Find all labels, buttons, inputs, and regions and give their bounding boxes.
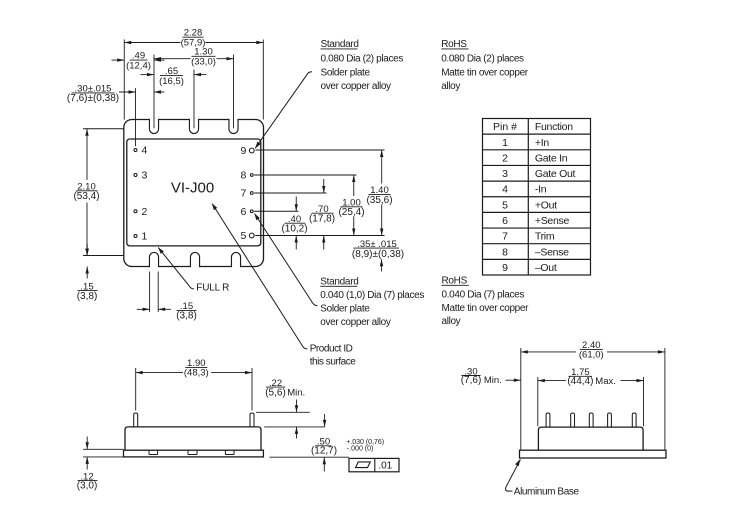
svg-text:+Out: +Out	[535, 199, 557, 211]
svg-text:7: 7	[240, 188, 246, 200]
svg-text:(53,4): (53,4)	[73, 191, 99, 202]
svg-text:(3,8): (3,8)	[77, 291, 98, 302]
svg-text:(61,0): (61,0)	[579, 350, 604, 361]
mounting slot bottom-middle	[191, 265, 199, 267]
leader aluminum base	[506, 460, 521, 492]
extension line base left	[520, 348, 522, 450]
leader pin 9 row	[256, 149, 385, 151]
top view module body	[127, 139, 261, 246]
side view body	[125, 427, 261, 450]
pin 1	[134, 235, 137, 238]
leader to pin 6 (standard plating note)	[255, 214, 318, 306]
extension line base right	[664, 348, 666, 450]
dimension 2.40 (61,0) base width	[521, 351, 576, 353]
pin 8	[250, 174, 253, 177]
end view body	[538, 427, 643, 450]
pin 3	[134, 174, 137, 177]
svg-text:(25,4): (25,4)	[338, 207, 364, 218]
svg-text:(5,6): (5,6)	[265, 388, 286, 399]
end view pin 3	[589, 413, 593, 427]
svg-text:+Sense: +Sense	[535, 215, 570, 227]
extension line flange top-left tangent	[83, 128, 124, 130]
top view flange outline	[124, 120, 264, 267]
dimension .30±.015 (7,6)±(0,38) pin offset	[119, 91, 136, 93]
svg-text:8: 8	[502, 246, 508, 258]
extension line right pin center	[251, 368, 253, 411]
svg-text:-In: -In	[535, 184, 547, 196]
svg-text:(35,6): (35,6)	[366, 195, 392, 206]
end view pin 5	[632, 413, 636, 427]
svg-text:Matte tin over copper: Matte tin over copper	[441, 67, 529, 78]
extension line flange bottom-left tangent	[83, 255, 123, 257]
svg-text:0.080 Dia (2) places: 0.080 Dia (2) places	[321, 54, 404, 65]
svg-text:Matte tin over copper: Matte tin over copper	[442, 303, 530, 314]
extension line base bottom right	[270, 456, 350, 458]
svg-text:(7,6): (7,6)	[461, 375, 482, 386]
pin 6	[250, 210, 253, 213]
svg-text:(12,4): (12,4)	[126, 60, 151, 71]
svg-text:0.040 Dia (7) places: 0.040 Dia (7) places	[442, 289, 525, 300]
dimension 2.28 (57,9) overall width	[124, 42, 180, 44]
mounting slot top-right	[229, 118, 237, 120]
svg-text:3: 3	[502, 168, 508, 180]
svg-text:9: 9	[240, 145, 246, 157]
dimension .15 (3,8) slot width	[137, 308, 150, 310]
dimension .40 (10,2) pin6 to pin5	[295, 197, 297, 212]
svg-text:5: 5	[502, 199, 508, 211]
pin 7	[250, 192, 253, 195]
extension line body left	[537, 377, 539, 426]
extension line base top left	[83, 448, 123, 450]
svg-text:-.000 (0): -.000 (0)	[347, 445, 373, 452]
leader pin 8 row	[254, 174, 356, 176]
svg-text:4: 4	[142, 145, 148, 157]
svg-text:6: 6	[502, 215, 508, 227]
svg-text:(3,8): (3,8)	[176, 311, 197, 322]
side view right pin	[250, 413, 254, 427]
svg-text:1: 1	[502, 137, 508, 149]
svg-text:Function: Function	[535, 121, 573, 133]
leader pin 7 row	[254, 192, 326, 194]
svg-text:4: 4	[502, 184, 508, 196]
extension line slot slit left	[149, 272, 151, 313]
extension line base bottom left	[83, 456, 123, 458]
dimension .70 (17,8) pin7 to pin5	[323, 179, 325, 193]
dimension .49 (12,4) edge to slot1	[112, 59, 125, 61]
extension line slot slit right	[157, 272, 159, 313]
svg-text:3: 3	[142, 170, 148, 182]
dimension 1.75 (44,4) max body width	[538, 380, 566, 382]
leader product id	[212, 204, 307, 349]
end view aluminum base plate	[520, 450, 667, 458]
dimension .15 (3,8) corner height	[86, 244, 88, 256]
leader to pin 9 (standard plating note)	[255, 72, 312, 148]
extension line package right edge	[262, 40, 264, 120]
svg-text:–Out: –Out	[535, 262, 557, 274]
svg-text:Pin #: Pin #	[493, 121, 517, 133]
base slot tab left	[148, 450, 150, 454]
dimension 1.00 (25,4) pin8 to pin5	[353, 175, 355, 196]
svg-text:(12,7): (12,7)	[311, 445, 337, 456]
svg-text:Gate Out: Gate Out	[535, 168, 576, 180]
dimension .65 (16,5) slot1 to slot2	[141, 74, 155, 76]
svg-text:5: 5	[240, 230, 246, 242]
pin 9	[249, 148, 254, 153]
svg-text:.01: .01	[378, 460, 392, 471]
mounting slot bottom-right	[232, 265, 240, 267]
svg-text:7: 7	[502, 231, 508, 243]
svg-text:2: 2	[502, 152, 508, 164]
mounting slot top-middle	[190, 118, 198, 120]
side view base plate	[124, 450, 264, 457]
svg-text:(7,6)±(0,38): (7,6)±(0,38)	[67, 93, 119, 104]
dimension .12 (3,0) base thickness	[86, 437, 88, 450]
end view pin 2	[571, 413, 575, 427]
svg-text:(44,4): (44,4)	[567, 376, 593, 387]
extension line slot2 center	[193, 70, 195, 129]
svg-text:1: 1	[142, 231, 148, 243]
svg-text:over copper alloy: over copper alloy	[321, 81, 392, 92]
svg-text:Solder plate: Solder plate	[321, 67, 371, 78]
extension line body right	[643, 377, 645, 426]
svg-text:alloy: alloy	[441, 81, 460, 92]
svg-text:over copper alloy: over copper alloy	[320, 317, 391, 328]
extension line slot3 center	[233, 55, 235, 129]
svg-text:Max.: Max.	[595, 376, 616, 387]
end view pin 4	[608, 413, 612, 427]
svg-text:FULL R: FULL R	[196, 282, 229, 293]
dimension 1.40 (35,6) pin9 to pin5	[381, 150, 383, 184]
end view pin 1	[546, 413, 550, 427]
base slot tab middle	[187, 450, 189, 454]
svg-text:2: 2	[142, 206, 148, 218]
dimension 1.90 (48,3) pin span	[136, 372, 183, 374]
svg-text:–Sense: –Sense	[535, 246, 569, 258]
pin 2	[134, 210, 137, 213]
extension line pin column left	[135, 88, 137, 146]
dimension 2.10 (53,4) overall height	[86, 129, 88, 180]
svg-text:Product ID: Product ID	[310, 344, 353, 355]
extension line left pin center	[135, 368, 137, 411]
pin 5	[249, 233, 254, 238]
svg-text:this surface: this surface	[310, 357, 357, 368]
base slot tab right	[224, 450, 226, 454]
mounting slot bottom-left	[150, 265, 158, 267]
svg-text:(48,3): (48,3)	[184, 368, 209, 379]
dimension 1.30 (33,0) slot span	[154, 58, 191, 60]
svg-text:VI-J00: VI-J00	[171, 179, 214, 196]
svg-text:(17,8): (17,8)	[309, 214, 335, 225]
mounting slot top-left	[150, 118, 158, 120]
svg-text:6: 6	[240, 206, 246, 218]
svg-text:8: 8	[240, 170, 246, 182]
svg-text:+In: +In	[535, 137, 549, 149]
svg-text:Trim: Trim	[535, 231, 555, 243]
pin 4	[134, 149, 137, 152]
svg-text:(33,0): (33,0)	[191, 57, 216, 68]
svg-text:0.080 Dia (2) places: 0.080 Dia (2) places	[441, 54, 524, 65]
svg-text:Aluminum Base: Aluminum Base	[514, 486, 580, 497]
pin function table grid	[483, 119, 591, 276]
extension line package left edge	[123, 40, 125, 120]
leader pin 5 row	[255, 235, 384, 237]
svg-text:(3,0): (3,0)	[77, 480, 98, 491]
flatness callout box	[349, 458, 399, 471]
svg-text:Min.: Min.	[484, 375, 502, 386]
extension line pin top	[256, 411, 310, 413]
svg-text:Solder plate: Solder plate	[320, 304, 370, 315]
svg-text:(16,5): (16,5)	[159, 76, 184, 87]
leader full r	[158, 248, 194, 289]
extension line slot1 center	[153, 55, 155, 129]
side view left pin	[134, 413, 138, 427]
svg-text:Min.: Min.	[287, 388, 305, 399]
extension line body top right	[264, 426, 324, 428]
svg-text:(10,2): (10,2)	[281, 224, 307, 235]
leader pin 6 row	[254, 210, 298, 212]
svg-text:9: 9	[502, 262, 508, 274]
svg-text:0.040 (1,0) Dia (7) places: 0.040 (1,0) Dia (7) places	[320, 290, 424, 301]
svg-text:Gate In: Gate In	[535, 152, 568, 164]
svg-text:alloy: alloy	[442, 316, 461, 327]
svg-text:(8,9)±(0,38): (8,9)±(0,38)	[352, 249, 404, 260]
